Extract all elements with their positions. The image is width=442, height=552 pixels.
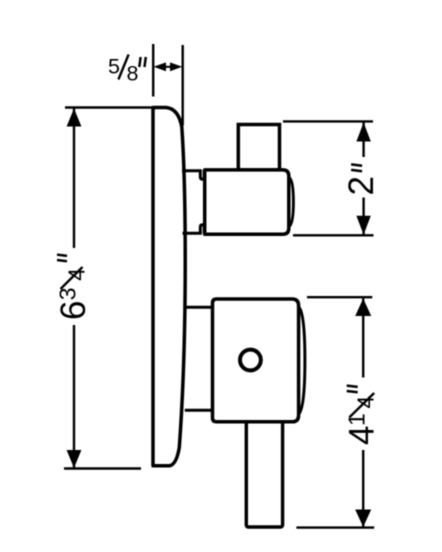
svg-text:8: 8 <box>127 62 139 86</box>
svg-text:6: 6 <box>54 301 93 320</box>
svg-text:1: 1 <box>344 413 370 426</box>
svg-text:4: 4 <box>343 426 382 445</box>
svg-text:3: 3 <box>55 287 81 300</box>
svg-text:2: 2 <box>342 176 381 195</box>
svg-text:5: 5 <box>108 55 120 79</box>
